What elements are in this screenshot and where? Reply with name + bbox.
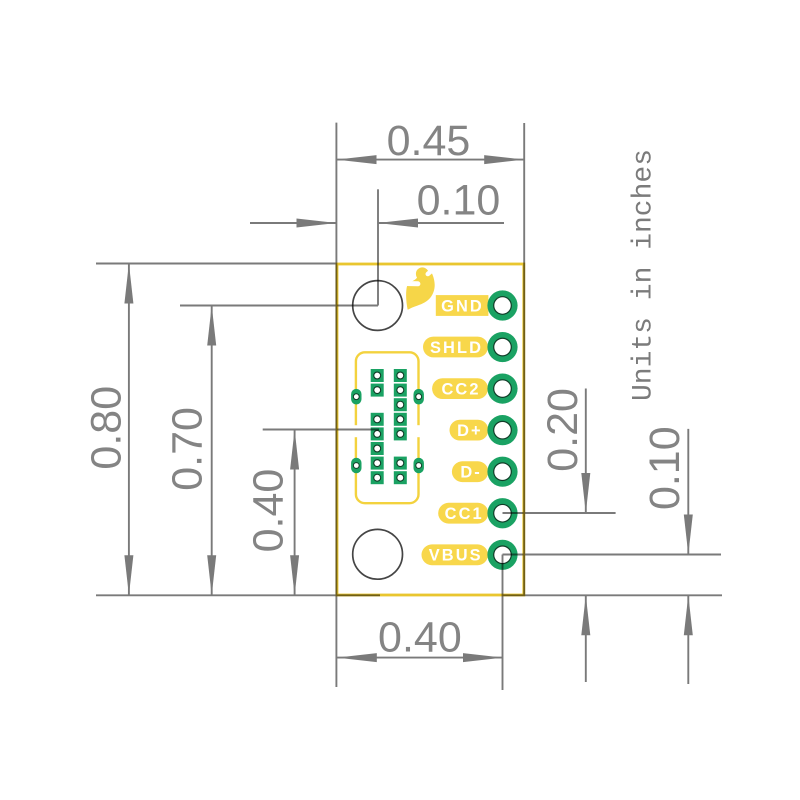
extension line vbus vertical xyxy=(502,555,504,691)
mounting hole bottom xyxy=(353,529,403,579)
pcb board outline xyxy=(337,264,524,595)
pin label SHLD xyxy=(423,337,488,358)
svg-text:CC2: CC2 xyxy=(441,380,480,398)
usb-c pad left column row 6 xyxy=(371,442,384,455)
svg-text:0.10: 0.10 xyxy=(417,176,501,224)
dimension 0.20 right xyxy=(539,388,590,682)
usb-c pad left column row 4 xyxy=(371,413,384,426)
flame notch middle xyxy=(404,281,418,286)
usb-c pad right column row 8 xyxy=(394,471,407,484)
usb-c pad right column row 5 xyxy=(394,427,407,440)
dimension 0.10 right xyxy=(641,426,693,684)
pin label D+ xyxy=(450,420,489,441)
breakout hole D- xyxy=(487,457,517,487)
dimension 0.40 left xyxy=(245,430,300,596)
breakout hole VBUS xyxy=(487,540,517,570)
pin label CC1 xyxy=(438,503,488,524)
svg-text:0.70: 0.70 xyxy=(164,407,212,491)
dimension 0.10 top xyxy=(250,176,504,227)
svg-text:CC1: CC1 xyxy=(445,505,484,523)
usb-c connector courtyard outline xyxy=(356,352,419,503)
breakout hole GND xyxy=(487,290,517,320)
svg-text:0.10: 0.10 xyxy=(641,426,689,510)
usb-c pad right column row 4 xyxy=(394,413,407,426)
dimension 0.70 xyxy=(164,306,217,596)
usb-c pad left column row 7 xyxy=(371,457,384,470)
breakout hole CC2 xyxy=(487,374,517,404)
usb-c pad left column row 2 xyxy=(371,384,384,397)
pin label CC2 xyxy=(432,378,488,399)
extension line board top left xyxy=(96,263,337,265)
breakout hole CC1 xyxy=(487,498,517,528)
extension line board bottom left xyxy=(96,594,380,596)
svg-text:0.45: 0.45 xyxy=(387,117,471,165)
svg-text:0.80: 0.80 xyxy=(82,386,130,470)
svg-text:0.40: 0.40 xyxy=(378,613,462,661)
breakout hole SHLD xyxy=(487,332,517,362)
usb-c pad left column row 8 xyxy=(371,471,384,484)
pin label GND xyxy=(436,295,489,316)
sparkfun flame logo xyxy=(404,267,434,309)
usb-c pad right column row 1 xyxy=(394,369,407,382)
svg-text:SHLD: SHLD xyxy=(430,339,483,357)
extension line vbus right xyxy=(503,554,722,556)
svg-text:VBUS: VBUS xyxy=(429,547,483,565)
svg-text:Units in inches: Units in inches xyxy=(629,149,660,401)
extension line D+ row left xyxy=(263,429,379,431)
extension line cc1 right xyxy=(503,512,616,514)
svg-text:D+: D+ xyxy=(457,422,483,440)
svg-text:0.20: 0.20 xyxy=(539,388,587,472)
pin label VBUS xyxy=(422,544,489,565)
extension line board left edge vertical xyxy=(335,123,337,687)
svg-text:D-: D- xyxy=(460,464,482,482)
svg-text:GND: GND xyxy=(441,297,484,315)
extension line mount hole left xyxy=(180,305,378,307)
dimension layer xyxy=(82,117,722,690)
dimension 0.45 top xyxy=(337,117,525,165)
flame notch top xyxy=(428,270,433,274)
dimension 0.40 bottom xyxy=(337,613,503,662)
svg-text:0.40: 0.40 xyxy=(245,469,293,553)
usb-c pad right column row 7 xyxy=(394,457,407,470)
pin label D- xyxy=(452,461,488,482)
extension line board right edge vertical xyxy=(523,123,525,595)
dimension 0.80 xyxy=(82,264,133,596)
courtyard side gaps xyxy=(353,425,360,437)
usb-c pad right column row 2 xyxy=(394,384,407,397)
usb-c shield slot pads xyxy=(351,389,424,473)
extension line board bottom right xyxy=(502,594,722,596)
usb-c pad left column row 1 xyxy=(371,369,384,382)
extension line mount hole center vertical xyxy=(377,189,379,305)
breakout hole D+ xyxy=(487,415,517,445)
usb-c pad left column row 5 xyxy=(371,427,384,440)
mounting hole top xyxy=(353,281,403,331)
usb-c pad right column row 3 xyxy=(394,398,407,411)
